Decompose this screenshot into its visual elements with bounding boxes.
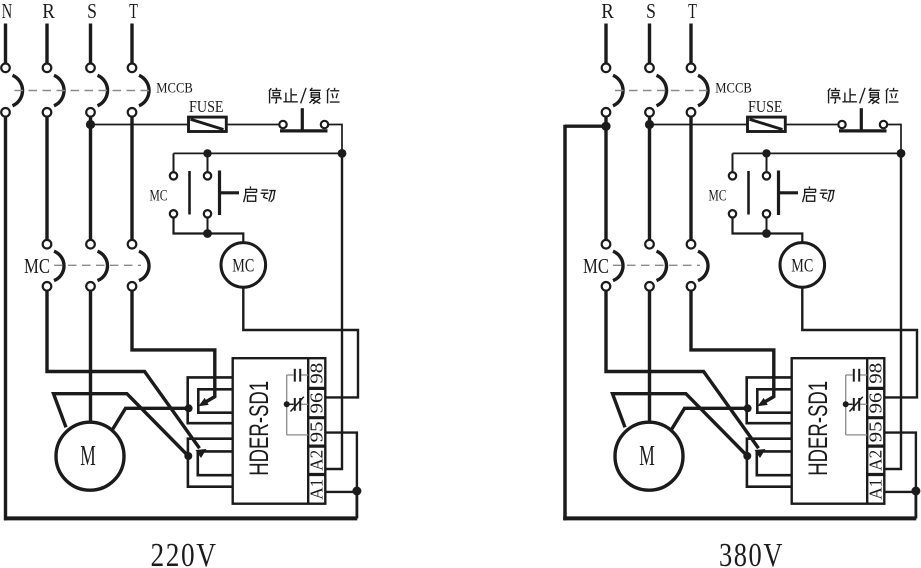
starter internal common bracket bbox=[286, 375, 288, 435]
wire motor lead 1 bbox=[54, 394, 189, 456]
svg-text:MCCB: MCCB bbox=[156, 80, 193, 96]
wire T MCCB to MC bbox=[130, 117, 133, 241]
wire S MCCB to MC bbox=[648, 117, 651, 241]
wire T to upper loop bbox=[132, 291, 215, 405]
starter upper input loop inner bbox=[757, 389, 791, 412]
wire incoming S bbox=[89, 24, 92, 64]
wire stop to right rail bbox=[328, 125, 342, 151]
wire terminal A1 to bottom node bbox=[325, 491, 357, 493]
wire R tap to border bbox=[565, 124, 606, 127]
wire terminal 95 to bottom node bbox=[884, 433, 916, 491]
MC main contact R top terminal bbox=[602, 240, 611, 249]
wire node to bottom bus bbox=[915, 491, 918, 518]
wire motor lead 1 bbox=[613, 394, 748, 456]
starter lower input loop outer bbox=[188, 439, 233, 487]
fuse symbol bbox=[748, 117, 786, 131]
node control tap on S bbox=[86, 120, 95, 129]
wire coil to terminal 96 bbox=[243, 287, 358, 397]
MC main contact R arc bbox=[54, 251, 64, 280]
MCCB pole N bottom terminal bbox=[1, 108, 10, 117]
starter internal common node bbox=[284, 401, 290, 407]
svg-text:M: M bbox=[80, 441, 96, 472]
node rail to start button bbox=[762, 149, 770, 157]
wire terminal A1 to bottom node bbox=[884, 491, 916, 493]
node A1/95 junction bbox=[911, 487, 920, 496]
wire MC aux bottom bbox=[174, 218, 244, 244]
node control rail junction bbox=[897, 149, 906, 158]
bottom bus wire bbox=[563, 516, 916, 520]
wire motor lead 2 bbox=[671, 408, 748, 430]
start button bbox=[763, 172, 770, 179]
label start 启动 bbox=[803, 186, 816, 202]
MC main contact R bottom terminal bbox=[602, 282, 611, 291]
label stop/reset bbox=[269, 88, 281, 104]
motor M bbox=[615, 422, 683, 490]
node motor lead 1 to loop bbox=[184, 452, 192, 460]
node motor lead 1 to loop bbox=[743, 452, 751, 460]
starter upper input loop inner bbox=[198, 389, 232, 412]
starter terminal dividers bbox=[308, 387, 325, 390]
MC main contact R top terminal bbox=[43, 240, 52, 249]
svg-text:MC: MC bbox=[791, 255, 813, 276]
svg-text:A2: A2 bbox=[306, 450, 326, 471]
svg-text:A1: A1 bbox=[306, 479, 326, 500]
soft starter HDER-SD1 box bbox=[792, 358, 885, 504]
svg-text:T: T bbox=[688, 0, 697, 23]
svg-text:T: T bbox=[129, 0, 138, 23]
svg-text:MCCB: MCCB bbox=[715, 80, 752, 96]
svg-text:S: S bbox=[87, 0, 97, 23]
wire R MCCB to MC bbox=[604, 117, 607, 241]
MC main contact T bottom terminal bbox=[128, 282, 137, 291]
MCCB pole R contact arc bbox=[54, 75, 64, 106]
arrow R into lower loop bbox=[196, 449, 207, 458]
node rail to start button bbox=[203, 149, 211, 157]
wire incoming T bbox=[689, 24, 692, 64]
MCCB pole S contact arc bbox=[98, 75, 108, 106]
wire stop to right rail bbox=[887, 125, 901, 151]
MCCB pole N top terminal bbox=[1, 64, 10, 73]
label start 启动 bbox=[244, 186, 257, 202]
MC auxiliary contact bbox=[170, 172, 177, 179]
MC main contact S top terminal bbox=[86, 240, 95, 249]
MCCB pole T top terminal bbox=[128, 64, 137, 73]
wire control rail horizontal bbox=[174, 152, 343, 154]
wire T to upper loop bbox=[691, 291, 774, 405]
MC linkage dashed line bbox=[613, 264, 700, 266]
MCCB pole T top terminal bbox=[687, 64, 696, 73]
MC main contact R bottom terminal bbox=[43, 282, 52, 291]
node combo bottom junction bbox=[203, 229, 212, 238]
MCCB pole S contact arc bbox=[657, 75, 667, 106]
wire T MCCB to MC bbox=[689, 117, 692, 241]
svg-text:R: R bbox=[42, 0, 55, 23]
wire stop rail to terminal A2 bbox=[884, 153, 901, 469]
svg-text:FUSE: FUSE bbox=[748, 97, 783, 116]
wire start bottom bbox=[207, 218, 209, 234]
svg-text:MC: MC bbox=[583, 254, 609, 278]
start button bbox=[204, 172, 211, 179]
wire coil to terminal 96 bbox=[802, 287, 917, 397]
MCCB pole N contact arc bbox=[13, 75, 23, 106]
svg-text:HDER-SD1: HDER-SD1 bbox=[244, 381, 274, 476]
wire control tap to fuse bbox=[650, 124, 748, 126]
node motor lead 2 to loop bbox=[744, 404, 752, 412]
wire S MCCB to MC bbox=[89, 117, 92, 241]
svg-text:A1: A1 bbox=[865, 479, 885, 500]
svg-text:A2: A2 bbox=[865, 450, 885, 471]
wire rail to start button bbox=[766, 153, 768, 172]
soft starter HDER-SD1 box bbox=[233, 358, 326, 504]
stop button NC contact bbox=[279, 121, 286, 128]
MCCB pole R bottom terminal bbox=[602, 108, 611, 117]
MC main contact T top terminal bbox=[128, 240, 137, 249]
starter terminal dividers bbox=[867, 387, 884, 390]
MCCB pole T contact arc bbox=[698, 75, 708, 106]
wire stop rail to terminal A2 bbox=[325, 153, 342, 469]
MC main contact R arc bbox=[613, 251, 623, 280]
starter upper input loop outer bbox=[747, 377, 792, 423]
MC main contact T top terminal bbox=[687, 240, 696, 249]
svg-text:96: 96 bbox=[865, 393, 885, 414]
MC main contact S bottom terminal bbox=[86, 282, 95, 291]
wire S to motor bbox=[648, 291, 651, 424]
arrow R into lower loop bbox=[755, 449, 766, 458]
svg-text:S: S bbox=[646, 0, 656, 23]
node combo bottom junction bbox=[762, 229, 771, 238]
contactor coil MC bbox=[221, 243, 266, 288]
MCCB pole R contact arc bbox=[613, 75, 623, 106]
motor M bbox=[56, 422, 124, 490]
MCCB linkage dashed line bbox=[615, 90, 711, 92]
starter NO contact 98 bbox=[294, 369, 296, 382]
wire terminal 95 to bottom node bbox=[325, 433, 357, 491]
starter upper input loop outer bbox=[188, 377, 233, 423]
MC main contact T arc bbox=[698, 251, 708, 280]
svg-text:MC: MC bbox=[709, 188, 727, 205]
wire control rail horizontal bbox=[733, 152, 902, 154]
svg-text:220V: 220V bbox=[151, 537, 218, 568]
MCCB pole R top terminal bbox=[602, 64, 611, 73]
MC main contact S arc bbox=[657, 251, 667, 280]
svg-text:380V: 380V bbox=[719, 537, 784, 568]
stop button NC contact bbox=[838, 121, 845, 128]
starter lower input loop inner bbox=[198, 451, 233, 475]
svg-text:R: R bbox=[601, 0, 614, 23]
starter internal common bracket bbox=[845, 375, 847, 435]
MCCB pole S bottom terminal bbox=[645, 108, 654, 117]
starter lower input loop inner bbox=[757, 451, 792, 475]
MCCB pole R bottom terminal bbox=[43, 108, 52, 117]
wire motor lead 2 bbox=[112, 408, 189, 430]
MCCB pole S bottom terminal bbox=[86, 108, 95, 117]
MC main contact S top terminal bbox=[645, 240, 654, 249]
wire R to lower loop bbox=[47, 291, 200, 449]
svg-text:MC: MC bbox=[150, 188, 168, 205]
node control rail junction bbox=[338, 149, 347, 158]
wire N down (left border) bbox=[4, 117, 7, 521]
wire incoming T bbox=[130, 24, 133, 64]
svg-text:M: M bbox=[639, 441, 655, 472]
contactor coil MC bbox=[780, 243, 825, 288]
wire control tap to fuse bbox=[91, 124, 189, 126]
MCCB pole R top terminal bbox=[43, 64, 52, 73]
svg-text:N: N bbox=[2, 0, 12, 23]
node tap on R bbox=[601, 122, 610, 131]
svg-text:95: 95 bbox=[306, 421, 326, 442]
wire node to bottom bus bbox=[355, 491, 358, 518]
svg-text:MC: MC bbox=[24, 254, 50, 278]
wire fuse to stop button bbox=[226, 124, 279, 126]
wire fuse to stop button bbox=[785, 124, 838, 126]
wire incoming N bbox=[4, 24, 7, 64]
MCCB pole T bottom terminal bbox=[128, 108, 137, 117]
wire rail to start button bbox=[207, 153, 209, 172]
svg-text:MC: MC bbox=[232, 255, 254, 276]
wire border left down bbox=[563, 125, 567, 521]
svg-text:95: 95 bbox=[865, 421, 885, 442]
starter lower input loop outer bbox=[747, 439, 792, 487]
starter NC contact 96 bbox=[294, 398, 296, 411]
MC auxiliary contact bbox=[729, 172, 736, 179]
MCCB pole T contact arc bbox=[139, 75, 149, 106]
MCCB linkage dashed line bbox=[15, 90, 153, 92]
arrow T into upper loop bbox=[757, 398, 767, 406]
starter internal common node bbox=[843, 401, 849, 407]
starter NC contact 96 bbox=[853, 398, 855, 411]
MC main contact T bottom terminal bbox=[687, 282, 696, 291]
MCCB pole T bottom terminal bbox=[687, 108, 696, 117]
svg-text:96: 96 bbox=[306, 393, 326, 414]
bottom bus wire bbox=[4, 516, 357, 520]
fuse symbol bbox=[189, 117, 227, 131]
MCCB pole S top terminal bbox=[86, 64, 95, 73]
wire R MCCB to MC bbox=[45, 117, 48, 241]
MC linkage dashed line bbox=[54, 264, 141, 266]
wire incoming R bbox=[604, 24, 607, 64]
svg-text:98: 98 bbox=[306, 363, 326, 384]
node A1/95 junction bbox=[352, 487, 361, 496]
label stop/reset bbox=[828, 88, 840, 104]
arrow T into upper loop bbox=[198, 398, 208, 406]
wire incoming S bbox=[648, 24, 651, 64]
svg-text:HDER-SD1: HDER-SD1 bbox=[803, 381, 833, 476]
MC main contact T arc bbox=[139, 251, 149, 280]
MCCB pole S top terminal bbox=[645, 64, 654, 73]
svg-text:FUSE: FUSE bbox=[189, 97, 224, 116]
svg-text:98: 98 bbox=[865, 363, 885, 384]
wire incoming R bbox=[45, 24, 48, 64]
wire rail to MC aux bbox=[173, 153, 175, 172]
wire start bottom bbox=[766, 218, 768, 234]
wire R to lower loop bbox=[606, 291, 759, 449]
MC main contact S arc bbox=[98, 251, 108, 280]
node motor lead 2 to loop bbox=[185, 404, 193, 412]
wire rail to MC aux bbox=[732, 153, 734, 172]
starter NO contact 98 bbox=[853, 369, 855, 382]
MC main contact S bottom terminal bbox=[645, 282, 654, 291]
node control tap on S bbox=[645, 120, 654, 129]
wire S to motor bbox=[89, 291, 92, 424]
wire MC aux bottom bbox=[733, 218, 803, 244]
